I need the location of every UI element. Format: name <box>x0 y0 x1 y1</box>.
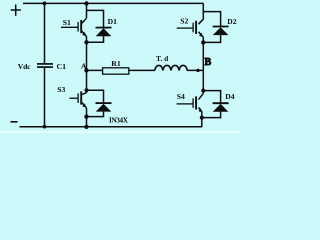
wire bottom bus <box>20 126 203 128</box>
wire mid output right <box>187 69 203 71</box>
wire link to D3 top <box>87 90 104 102</box>
wire S2 collector drop <box>202 3 204 19</box>
diode D2 <box>213 26 229 28</box>
wire S4 emitter to bottom bus <box>201 112 203 126</box>
svg-text:Vdc: Vdc <box>18 62 31 71</box>
wire link to D1 top <box>87 10 104 27</box>
node top S1 junction <box>84 1 88 5</box>
node mid wire dot near B <box>196 69 199 72</box>
node bottom left rail junction <box>43 125 47 129</box>
node S4 link junction <box>201 89 205 93</box>
transistor Q S3 (IGBT) <box>82 93 87 95</box>
capacitor C1 <box>37 64 53 67</box>
node top-left rail junction <box>43 2 47 6</box>
transistor Q S1 (IGBT) <box>82 18 87 23</box>
wire link to D4 top <box>203 91 220 103</box>
wire S3 emitter to bottom bus <box>86 108 88 127</box>
wire D2 bottom link <box>203 35 220 43</box>
plus terminal <box>11 5 21 16</box>
svg-text:R1: R1 <box>111 59 121 68</box>
svg-text:S4: S4 <box>177 92 185 101</box>
node A junction <box>84 68 88 72</box>
diode D4 <box>213 102 229 104</box>
wire D4 bottom link <box>202 112 221 118</box>
svg-text:D1: D1 <box>108 17 117 26</box>
svg-text:T. d: T. d <box>156 54 169 63</box>
svg-text:D2: D2 <box>227 17 236 26</box>
transistor Q S4 (IGBT) <box>199 93 204 99</box>
diode D1 <box>96 27 112 29</box>
minus terminal <box>11 121 18 123</box>
wire B rail <box>202 37 204 93</box>
resistor R1 <box>103 68 129 74</box>
wire D1 bottom link <box>87 36 104 42</box>
svg-text:S1: S1 <box>63 18 71 27</box>
wire top bus <box>23 2 203 4</box>
node S3 link junction <box>85 88 89 92</box>
wire left rail lower <box>44 68 46 127</box>
svg-text:S3: S3 <box>57 85 65 94</box>
diode D3 <box>96 102 112 104</box>
wire mid output left <box>87 69 155 71</box>
wire D3 bottom link <box>87 112 104 117</box>
svg-text:IN34X: IN34X <box>109 117 129 125</box>
wire A rail <box>86 37 88 93</box>
node D1 rejoin <box>84 40 88 44</box>
node D2 rejoin <box>201 40 205 44</box>
node D4 rejoin <box>200 116 204 120</box>
transistor Q S2 (IGBT) <box>199 19 204 24</box>
svg-text:D4: D4 <box>225 92 234 101</box>
node bottom S3 junction <box>84 125 88 129</box>
wire left rail upper <box>44 3 46 63</box>
inductor T.d <box>155 65 187 70</box>
svg-text:A: A <box>81 62 87 71</box>
svg-text:S2: S2 <box>180 17 188 26</box>
svg-text:C1: C1 <box>57 62 67 71</box>
svg-text:B: B <box>205 57 212 68</box>
wire link to D2 top <box>203 12 220 26</box>
wire S1 collector drop <box>86 3 88 18</box>
node D3 rejoin <box>84 114 88 118</box>
